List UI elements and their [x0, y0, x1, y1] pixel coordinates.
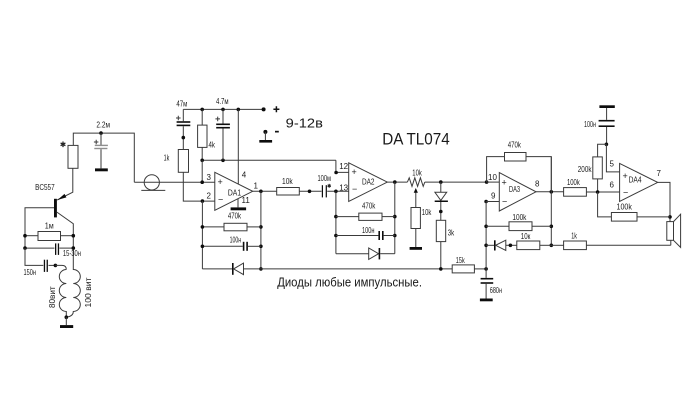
resistor 1k output: [551, 232, 671, 250]
svg-text:7: 7: [657, 169, 662, 178]
resistor 10k (pot wiper to ground): [410, 208, 432, 250]
svg-text:−: −: [218, 195, 223, 205]
resistor R* (starred): [61, 142, 78, 169]
svg-text:1k: 1k: [164, 153, 170, 162]
svg-text:BC557: BC557: [35, 183, 55, 192]
potentiometer 10k: [407, 168, 424, 207]
svg-text:DA1: DA1: [228, 189, 242, 198]
node coils common: [65, 315, 69, 319]
transistor Q1 BC557 bar: [54, 199, 57, 218]
label + terminal: [273, 106, 279, 112]
wire DA2 feedback left vertical: [334, 191, 338, 253]
wire DA2 out to DA3: [425, 180, 487, 184]
chassis bar above 100н: [599, 105, 614, 120]
svg-text:10: 10: [488, 173, 497, 182]
wire vref to pin3: [200, 160, 204, 184]
svg-text:47м: 47м: [176, 99, 187, 108]
resistor 470k DA2 feedback: [336, 201, 395, 220]
inductor L2 100вит: [66, 269, 93, 318]
wire probe line to pin3: [134, 181, 215, 183]
wire DA1 feedback left vertical: [201, 201, 203, 269]
svg-text:+: +: [218, 177, 223, 187]
resistor 15k: [452, 256, 488, 273]
capacitor 47м electrolytic: [176, 99, 190, 149]
ground under 680н: [480, 299, 493, 302]
svg-text:DA4: DA4: [629, 176, 642, 185]
capacitor 100н DA2 feedback: [336, 226, 395, 240]
svg-text:470k: 470k: [362, 201, 376, 210]
svg-text:100н: 100н: [362, 226, 375, 235]
wire pin4 supply: [238, 109, 247, 184]
wire pin5: [606, 144, 619, 172]
svg-text:2: 2: [207, 192, 212, 201]
op-amp U3 DA3: [491, 173, 540, 211]
svg-text:100k: 100k: [617, 203, 633, 212]
wire DA2 output: [387, 180, 407, 184]
svg-text:100k: 100k: [512, 213, 527, 222]
wire DA4 output: [658, 182, 672, 221]
svg-text:9: 9: [491, 192, 496, 201]
op-amp U2 DA2: [339, 163, 387, 202]
capacitor 4.7м electrolytic: [215, 97, 230, 160]
node junction dot on oscillator rail: [99, 131, 103, 135]
svg-text:100 вит: 100 вит: [84, 277, 93, 307]
svg-text:9-12в: 9-12в: [286, 116, 323, 131]
wire DA3 pin10 node: [485, 173, 499, 184]
op-amp U4 DA4: [620, 163, 662, 201]
svg-text:−: −: [352, 184, 357, 194]
op-amp U1 DA1: [207, 172, 259, 210]
diode D4: [486, 240, 517, 250]
svg-text:1: 1: [254, 182, 259, 191]
svg-text:15k: 15k: [456, 256, 466, 265]
svg-text:DA3: DA3: [509, 185, 520, 194]
wire oscillator top rail: [73, 133, 134, 182]
svg-text:6: 6: [610, 181, 615, 190]
svg-text:100н: 100н: [230, 235, 242, 244]
svg-text:8: 8: [535, 180, 540, 189]
label DA TL074: [382, 129, 450, 148]
svg-text:680н: 680н: [490, 286, 502, 295]
diode D2 (DA2 feedback): [336, 248, 395, 259]
wire DA3 right vertical: [550, 157, 554, 248]
label Диоды любые импульсные: [277, 274, 422, 289]
resistor 4k: [198, 109, 216, 160]
wire base: [25, 208, 54, 266]
svg-text:3k: 3k: [448, 228, 455, 237]
wire 1k bottom to pin2: [183, 172, 215, 201]
wire DA1 output: [253, 190, 277, 194]
wire DA3 pin9: [484, 200, 499, 204]
svg-text:200k: 200k: [578, 165, 592, 174]
node DA4 pin5 top: [605, 143, 609, 147]
ground under 2.2м: [95, 168, 108, 171]
capacitor 680н: [481, 269, 502, 299]
capacitor 100м coupling: [318, 174, 349, 197]
svg-text:80вит: 80вит: [48, 286, 57, 308]
wire long bottom line to 15k: [261, 268, 452, 270]
resistor 3k: [436, 220, 455, 270]
svg-text:+: +: [352, 167, 357, 177]
svg-text:10k: 10k: [422, 208, 432, 217]
wire vref line: [200, 159, 336, 163]
svg-text:3: 3: [207, 173, 212, 182]
resistor 100k DA4 feedback: [598, 192, 670, 221]
svg-text:150н: 150н: [24, 268, 37, 277]
capacitor 150н: [24, 248, 56, 277]
wire pin12 from vref: [334, 160, 348, 174]
capacitor 2.2м electrolytic: [94, 133, 108, 168]
svg-text:100k: 100k: [567, 178, 581, 187]
wire DA3 output: [536, 190, 564, 194]
wire DA1 feedback right vertical: [259, 191, 263, 270]
diode D1 (DA1 feedback): [202, 263, 261, 275]
capacitor 15-30н: [23, 243, 81, 258]
transistor Q1 BC557 label: [35, 183, 55, 192]
connector probe circle: [141, 175, 165, 191]
node coil tap: [54, 264, 58, 268]
svg-text:Диоды любые импульсные.: Диоды любые импульсные.: [277, 274, 422, 289]
svg-text:10к: 10к: [521, 232, 531, 241]
wire collector: [57, 212, 73, 268]
resistor 200k: [578, 144, 607, 192]
svg-text:DA2: DA2: [362, 178, 375, 187]
inductor L1 80вит: [48, 265, 66, 317]
svg-text:12: 12: [339, 162, 348, 171]
svg-text:1м: 1м: [45, 222, 54, 231]
capacitor 100н DA1 feedback: [201, 235, 261, 251]
svg-text:10k: 10k: [282, 177, 294, 186]
svg-text:−: −: [502, 197, 507, 207]
svg-text:470k: 470k: [508, 140, 522, 149]
resistor 100k DA3 feedback: [486, 213, 551, 231]
svg-text:11: 11: [242, 196, 251, 205]
svg-text:10k: 10k: [412, 168, 422, 177]
svg-text:+: +: [623, 171, 628, 181]
resistor 100k input DA4: [564, 178, 620, 196]
node test point below 47м: [182, 136, 186, 140]
ground under coils: [60, 317, 73, 328]
svg-text:5: 5: [610, 160, 615, 169]
capacitor 100н DA4: [584, 120, 615, 144]
svg-text:DA TL074: DA TL074: [382, 129, 450, 148]
svg-text:4: 4: [242, 171, 247, 180]
power rail +9-12в: [183, 107, 265, 111]
resistor 10k DA1 out: [277, 177, 322, 195]
resistor 470k DA1 feedback: [201, 211, 261, 231]
svg-text:1k: 1k: [571, 232, 577, 241]
label 9-12в: [286, 116, 323, 131]
svg-text:−: −: [623, 188, 628, 198]
resistor 1k: [164, 150, 189, 173]
resistor 1м: [23, 222, 75, 241]
wire DA3 left vertical: [484, 202, 488, 269]
speaker: [667, 214, 681, 247]
capacitor 2.2м label: [96, 121, 110, 130]
resistor 470k DA3 positive feedback: [487, 140, 552, 192]
svg-text:4k: 4k: [209, 140, 216, 149]
svg-text:2.2м: 2.2м: [96, 121, 110, 130]
svg-text:15-30н: 15-30н: [63, 249, 81, 258]
resistor 10к: [517, 232, 552, 250]
pin 11 ground: [231, 199, 247, 210]
svg-text:4.7м: 4.7м: [216, 97, 229, 106]
svg-text:100м: 100м: [318, 174, 332, 183]
node pin2 junction: [201, 199, 205, 203]
battery minus terminal to ground: [259, 130, 279, 143]
svg-text:100н: 100н: [584, 120, 596, 129]
diode D3 vertical: [435, 182, 448, 220]
svg-text:470k: 470k: [228, 211, 242, 220]
wire DA2 feedback right vertical: [393, 182, 397, 254]
svg-text:+: +: [502, 178, 507, 188]
svg-text:13: 13: [339, 184, 348, 193]
wire emitter with arrow: [57, 168, 73, 200]
